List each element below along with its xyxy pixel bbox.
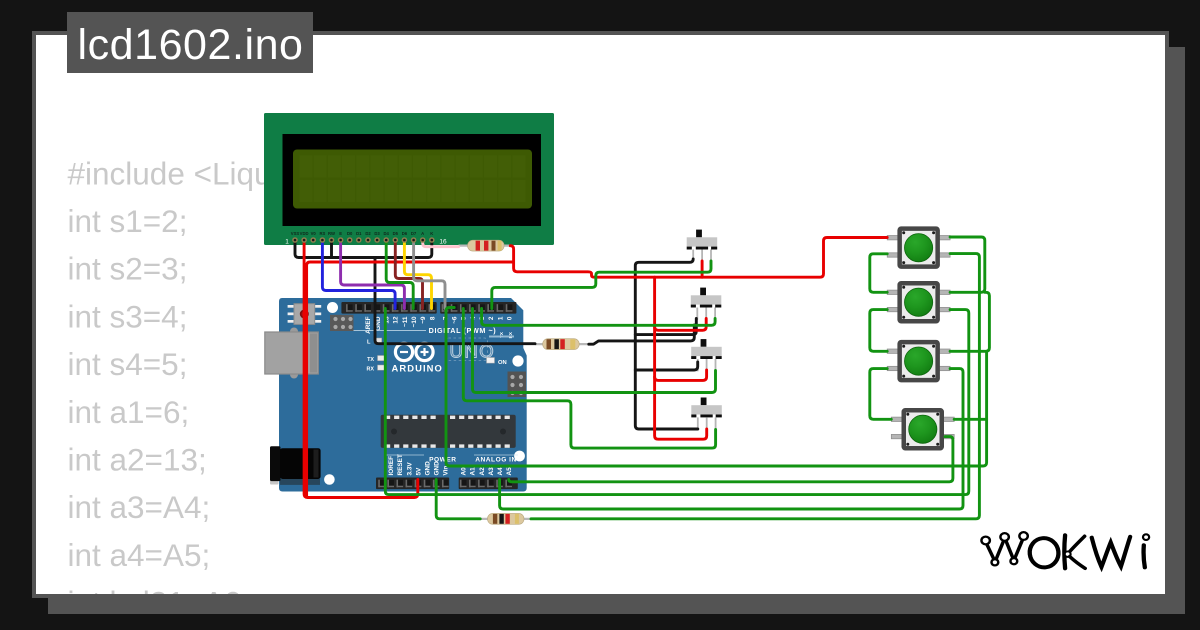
svg-text:K: K [430,231,433,236]
svg-text:int s4=5;: int s4=5; [68,346,188,382]
ICSP header 1 [330,315,354,331]
slide switch SW2 [691,288,722,320]
UNO text [446,338,488,361]
svg-text:D0: D0 [347,231,353,236]
slide switch SW3 [691,339,722,371]
wire LCD D4 green to pin10 [386,241,413,309]
wire LCD VDD to 5V [304,241,418,498]
wire pin6 to buttons common [446,308,987,467]
wire A5 to button B4 [509,437,953,482]
svg-text:D6: D6 [402,231,408,236]
wire button B4 right top to common [954,418,986,421]
svg-text:AREF: AREF [365,316,372,333]
wire pin13 to button B2 [385,309,969,495]
svg-text:D3: D3 [374,231,380,236]
svg-text:int a2=13;: int a2=13; [68,442,207,478]
svg-text:lcd1602.ino: lcd1602.ino [78,21,304,69]
resistor R1 220 [459,240,513,251]
LCD pin labels [291,231,434,236]
wire pin2 to SW1 right [492,261,711,309]
UNO board [279,298,527,492]
svg-text:A1: A1 [470,467,477,476]
svg-text:ARDUINO: ARDUINO [392,363,443,374]
LCD character cells [300,155,526,202]
digital header left [341,302,436,314]
wire GND to resistor R3 [436,480,480,519]
wire LCD D5 maroon to pin9 [395,241,422,309]
svg-text:int a3=A4;: int a3=A4; [68,489,211,525]
svg-text:RX: RX [367,367,375,373]
svg-text:A3: A3 [488,467,495,476]
svg-text:VSS: VSS [291,231,300,236]
LCD pcb [264,113,554,245]
wire 5V branch vertical [307,262,514,496]
svg-text:V0: V0 [311,231,317,236]
svg-text:D7: D7 [411,231,417,236]
svg-text:D4: D4 [384,231,390,236]
svg-text:12: 12 [393,316,400,324]
wire SW1 left to ground chain [635,259,698,429]
wire red bus to SW3 mid [655,370,707,380]
wire A4 to button B3 [500,369,963,509]
svg-text:int s1=2;: int s1=2; [68,203,188,239]
digital pin labels [365,316,513,334]
svg-text:RESET: RESET [397,454,404,475]
wire R2 to switch SW2 left [589,325,695,344]
svg-text:~6: ~6 [452,316,459,324]
ICSP header 2 [508,372,527,398]
svg-text:int s2=3;: int s2=3; [68,251,188,287]
wire chain to SW2 left [635,319,696,335]
ON led [487,358,495,364]
wire LCD RS blue to pin12 [322,241,395,309]
wire LCD A pink to R1 [423,241,459,247]
wire R3 to button B1 [531,254,979,519]
wire pin3 to SW2 right [482,309,715,326]
pushbutton B4 [891,410,954,448]
wire red bus to SW2 mid [655,319,707,331]
wire R1 to red bus to button B1 [510,238,887,278]
LCD bezel [283,134,542,226]
barrel jack [280,479,320,485]
svg-text:8: 8 [429,316,436,320]
svg-text:A0: A0 [461,467,468,476]
wire button chain B2-B3 right [950,292,989,351]
wire button chain B2-B3 left [870,310,887,352]
reset button [288,305,322,323]
svg-text:RS: RS [319,231,325,236]
wire pin4 to SW3 right [473,309,716,393]
svg-text:A: A [421,231,424,236]
wire ground bus to resistor R2 [375,258,535,344]
wire button chain B3-B4 left [870,369,892,420]
wire button chain B1-B2 left [870,254,887,292]
svg-text:ANALOG IN: ANALOG IN [475,457,517,464]
resistor R3 1k [480,513,531,524]
svg-text:5V: 5V [415,467,422,476]
svg-text:~9: ~9 [420,316,427,324]
wire SW1 mid stub [701,261,704,277]
USB connector [290,328,298,336]
Arduino UNO U1 [265,298,527,492]
arduino logo [395,343,433,360]
LCD1602 module [264,113,554,246]
wire LCD D6 yellow to pin8 [404,241,431,309]
ATmega IC [381,415,516,448]
WOKWI logo [981,532,1149,569]
analog header [459,478,518,490]
LCD screen [293,150,532,209]
wire LCD E purple to pin11 [341,241,405,309]
svg-text:int a4=A5;: int a4=A5; [68,537,211,573]
digital header right [440,302,516,314]
svg-text:16: 16 [439,239,447,246]
mounting holes [327,302,338,313]
svg-text:~10: ~10 [411,316,418,327]
svg-text:D2: D2 [365,231,371,236]
slide switch SW4 [691,398,722,430]
pushbutton B3 [887,342,950,380]
svg-text:1: 1 [285,239,289,246]
svg-text:POWER: POWER [429,457,456,464]
resistor R2 1k [535,339,589,350]
svg-text:3.3V: 3.3V [406,462,413,476]
svg-text:VDD: VDD [300,231,309,236]
svg-text:A5: A5 [506,467,513,476]
pushbutton B2 [887,283,950,321]
svg-text:2: 2 [488,316,495,320]
wire LCD D7 gray to pin7 [414,241,445,309]
svg-text:1: 1 [497,316,504,320]
LCD pin pads [292,237,434,243]
svg-text:A2: A2 [479,467,486,476]
wire chain to SW3 left [635,362,697,370]
wire LCD VSS/RW/K ground bus [295,241,432,258]
pushbutton B1 [887,229,950,267]
svg-text:~11: ~11 [402,316,409,327]
power analog labels [388,454,513,475]
title box [67,12,313,73]
slide switch SW1 [687,230,718,262]
svg-text:D1: D1 [356,231,362,236]
svg-text:D5: D5 [393,231,399,236]
wire button chain B1-B2 right [950,237,985,292]
svg-text:int a1=6;: int a1=6; [68,394,190,430]
svg-text:A4: A4 [497,467,504,476]
wire pin5 to SW4 right [463,309,715,449]
svg-text:TX: TX [367,357,374,363]
svg-text:RW: RW [328,231,335,236]
code text [68,155,439,620]
svg-text:ON: ON [498,360,507,366]
svg-text:int s3=4;: int s3=4; [68,298,188,334]
power header [376,478,449,490]
wire red bus down [655,277,707,439]
svg-text:0: 0 [506,316,513,320]
svg-text:L: L [367,340,371,346]
svg-text:E: E [339,231,342,236]
svg-text:IOREF: IOREF [388,456,395,476]
